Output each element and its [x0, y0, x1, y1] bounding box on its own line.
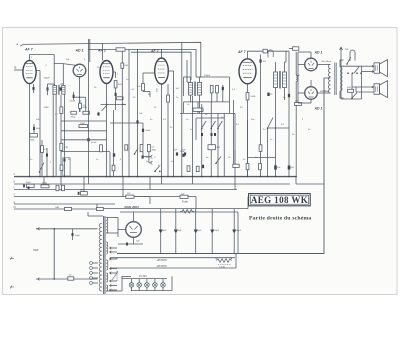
output transformer core: [334, 63, 336, 96]
wire IFB top leads: [275, 62, 277, 72]
resistor 240 x100: [97, 207, 104, 210]
wire IF0 tops: [48, 83, 55, 85]
wire x224.25 vertical: [223, 113, 225, 176]
wire drop x81 to 4uF: [83, 177, 85, 192]
bottom bus y253.5: [117, 253, 324, 255]
potentiometer Fisk zigzag: [216, 259, 232, 263]
svg-text:Fusib: Fusib: [182, 201, 189, 204]
wire x137.5 long vertical: [137, 49, 139, 176]
wire h y130.8: [61, 130, 107, 132]
resistor box x260 y148: [259, 145, 262, 152]
wire V1 plate up: [29, 55, 31, 61]
IF transformer A core: [193, 82, 195, 97]
wire x229.5 down: [229, 102, 231, 114]
wire V3 top lead: [102, 43, 104, 60]
tube V5 AF7: [239, 59, 256, 84]
svg-text:4V 32V: 4V 32V: [139, 275, 147, 278]
capacitor blob x73.6: [73, 92, 75, 100]
wire drop x61 to rail: [60, 177, 62, 186]
svg-text:50nF: 50nF: [36, 128, 41, 130]
svg-text:50nF: 50nF: [180, 151, 185, 153]
svg-text:CAD: CAD: [55, 206, 60, 209]
capacitor blob x289 y95: [288, 94, 290, 97]
wire h y157.6: [248, 157, 276, 159]
wire x40 vertical from tube right: [36, 70, 40, 72]
IF transformer A left winding: [188, 83, 192, 96]
capacitor C1 4μF: [160, 209, 162, 254]
page border: [3, 28, 398, 295]
wire IFA top leads: [190, 77, 192, 83]
power transformer secondary w2: [106, 242, 108, 254]
switch K4 diagonal: [216, 157, 221, 164]
bus rail g y204: [14, 203, 115, 205]
resistor box x113.5 y168: [112, 165, 115, 171]
svg-text:7kΩ: 7kΩ: [345, 49, 349, 51]
shield rectangle x62-70: [63, 158, 70, 176]
switch contact x156 y168: [155, 166, 160, 171]
output transformer left winding: [328, 65, 330, 93]
capacitor 50nF on V1 line: [33, 127, 35, 130]
wire h y66.2: [341, 65, 362, 67]
svg-text:10kΩ: 10kΩ: [80, 123, 85, 125]
switch contact lower-left: [40, 163, 45, 172]
capacitor blob x260 y61: [259, 59, 261, 62]
wire x201.75 lower vertical: [201, 104, 203, 177]
wire V4 top: [161, 49, 163, 58]
capacitor C3 8μF: [195, 209, 197, 254]
switch S2 diagonal: [354, 67, 359, 73]
wire drop x235: [234, 177, 236, 190]
lamp bottom bus y290.6: [131, 290, 172, 292]
svg-text:100pF: 100pF: [44, 78, 51, 80]
resistor box cluster: [208, 145, 215, 150]
tube V4 AF7: [155, 58, 169, 84]
svg-text:50μF: 50μF: [26, 182, 31, 184]
resistor box x188.5 y167: [187, 166, 190, 172]
resistor h box y112 left: [71, 111, 77, 114]
wire x88 vertical: [88, 50, 90, 177]
resistor 10k horizontal: [79, 125, 88, 128]
IF transformer 0 right winding: [62, 86, 65, 95]
svg-text:AF 7: AF 7: [237, 50, 247, 54]
resistor vert x217: [216, 85, 218, 102]
wire to speaker2 upper: [352, 86, 374, 88]
svg-text:AF 7: AF 7: [150, 49, 160, 53]
hook element: [350, 50, 355, 61]
wire RGN left: [118, 229, 126, 231]
wire x192.5 vertical: [192, 96, 194, 177]
wire IFA bottoms: [190, 95, 192, 102]
capacitor blob x183.5 y155: [182, 154, 184, 157]
resistor top box x122 y49: [116, 48, 125, 51]
rectifier tube RGN2004: [126, 222, 142, 238]
power transformer secondary HT winding: [106, 218, 108, 234]
wire h y128 to x289: [268, 127, 290, 129]
resistor box x199 y168: [196, 166, 199, 171]
svg-text:2MΩ: 2MΩ: [152, 150, 157, 152]
choke x296: [295, 52, 297, 75]
capacitor blob x143 y130: [142, 123, 144, 145]
svg-text:AF 7: AF 7: [24, 48, 34, 52]
capacitor blob x47 low: [46, 148, 48, 177]
main ground bus c y176.6: [14, 176, 296, 178]
resistor box x61.5 y167: [60, 165, 63, 171]
svg-text:100pF: 100pF: [70, 101, 76, 103]
wire top bus P3: [131, 52, 191, 80]
wire x187 vertical: [186, 60, 188, 82]
svg-text:3kΩ: 3kΩ: [118, 84, 122, 86]
IF transformer B left winding: [274, 72, 278, 88]
resistor box x184 y196: [160, 196, 180, 198]
wire 200pF to x229: [205, 76, 230, 78]
stage divider x88.5: [88, 39, 90, 50]
resistor box x115.6 y81: [114, 81, 117, 88]
HT bus y212: [160, 211, 238, 213]
svg-text:1MΩ: 1MΩ: [30, 140, 35, 142]
wire top bus P2: [89, 48, 117, 50]
wire V4 plate right: [168, 70, 173, 72]
svg-text:HFW: HFW: [33, 249, 39, 252]
resistor box V5 cathode: [246, 93, 249, 101]
loop antenna top wire: [36, 228, 98, 230]
wire x129 vertical: [128, 49, 130, 176]
wire x54 drop: [53, 55, 55, 86]
resistor vert x148.9 y148: [148, 145, 151, 152]
IF transformer 0 core: [57, 85, 59, 95]
IF transformer B right winding: [283, 72, 287, 88]
power transformer secondary w3: [106, 260, 108, 270]
wire h y104.4: [101, 103, 127, 105]
svg-text:2MΩ: 2MΩ: [44, 107, 49, 109]
wire x64.5 vertical: [64, 94, 66, 176]
jack symbol top: [340, 47, 343, 50]
resistor vert box x260b: [259, 164, 262, 170]
capacitor blob x289: [288, 166, 291, 170]
resistor box x61 y146: [60, 143, 63, 150]
capacitor blob x222.8: [222, 85, 224, 102]
speaker LS2: [374, 84, 380, 95]
capacitor blob k3: [214, 133, 216, 136]
resistor box x295 y49: [293, 47, 299, 51]
wire x235 vertical: [234, 113, 236, 176]
wire OPT right top: [339, 60, 341, 67]
svg-text:AD 1: AD 1: [314, 51, 323, 55]
wire x218 vertical: [217, 113, 219, 176]
svg-text:2MΩ: 2MΩ: [83, 107, 88, 109]
capacitor blob IF0 right: [60, 87, 62, 90]
wire h y97.2 under AD1: [74, 96, 86, 98]
svg-text:5kΩ: 5kΩ: [217, 147, 221, 149]
capacitor blob x137 y122: [136, 120, 138, 123]
primary tap switch dashed: [116, 271, 118, 281]
wire x61 vertical: [60, 95, 62, 177]
wire V7 left lead: [298, 92, 305, 94]
power transformer secondary w5: [106, 285, 108, 291]
resistor 1k horizontal: [193, 108, 203, 111]
heater wires from transformer: [116, 258, 118, 259]
wire transformer top left: [88, 215, 103, 217]
dial lamp LP2: [137, 283, 142, 288]
capacitor blob x115.6 y94: [115, 93, 117, 96]
lamp bus y278.6: [122, 278, 167, 280]
wire V6 left lead: [298, 64, 305, 66]
power transformer core: [103, 216, 105, 294]
wire V3 right to x115.6: [113, 71, 116, 73]
wire V5 top: [248, 51, 264, 59]
IF transformer 0 left winding: [53, 86, 57, 95]
wire x56 vertical: [55, 94, 57, 176]
wire x356 segment: [355, 87, 357, 92]
resistor top box x260: [263, 49, 267, 53]
wire to speaker1 lower: [362, 71, 375, 73]
wire h y156 link: [142, 152, 144, 157]
wire lamp feed from transformer: [106, 290, 122, 292]
wire h y101.9: [184, 101, 230, 103]
dial lamp LP5: [161, 283, 166, 288]
wire drop x44 to rail: [43, 177, 45, 184]
loop antenna bottom wire: [36, 278, 98, 280]
contact dots row: [347, 72, 349, 74]
fuse coil: [180, 210, 194, 214]
wire OPT right bottom: [339, 91, 341, 98]
svg-text:+65 50Hz: +65 50Hz: [157, 259, 168, 262]
primary terminals: [90, 262, 93, 265]
resistor 50 on loop bottom: [68, 277, 74, 280]
wire top bus P1: [23, 42, 201, 77]
svg-text:8μF: 8μF: [178, 230, 182, 232]
wire OPT centre tap: [324, 77, 331, 79]
tube V1 AF7: [23, 60, 36, 83]
svg-text:AEG 108 WK: AEG 108 WK: [251, 195, 308, 205]
svg-text:50pF: 50pF: [75, 235, 81, 237]
wire h y184 to box: [296, 183, 324, 185]
junction dots: [29, 176, 30, 177]
resistor box x61 y110: [60, 107, 63, 114]
wire V7 right lead to OPT: [317, 92, 330, 94]
resistor vert x247.5: [247, 120, 249, 177]
capacitor C4 16μF: [211, 209, 213, 254]
wire RGN top: [133, 212, 135, 222]
wire x115.6 down: [115, 88, 117, 110]
capacitor blob x64: [64, 159, 66, 162]
switch K2 diagonal: [211, 121, 215, 128]
resistor small box y90: [348, 89, 354, 92]
svg-text:AD 1: AD 1: [314, 107, 323, 111]
wire x113.5 vertical: [113, 110, 115, 165]
capacitor blob x28 y187.5: [28, 186, 30, 189]
wire drop x192.5: [192, 177, 194, 184]
wire drop x161.5: [161, 177, 163, 184]
capacitor C2 8μF: [175, 209, 177, 254]
dial lamp LP4: [153, 283, 158, 288]
svg-text:20kΩ: 20kΩ: [71, 117, 76, 119]
bus rail b y184: [14, 183, 290, 185]
svg-text:AD 1: AD 1: [75, 49, 84, 53]
dial lamp LP3: [145, 283, 150, 288]
capacitor 50uF on rails: [27, 184, 35, 187]
switch S1 diagonal: [347, 57, 351, 64]
resistor 500 box x143: [142, 73, 144, 84]
svg-text:2000: 2000: [323, 91, 329, 93]
svg-text:445 50Hz: 445 50Hz: [157, 265, 168, 268]
resistor h box y166 x236: [233, 164, 239, 167]
terminal C lower: [151, 161, 153, 164]
wire V6 top lead: [310, 52, 312, 58]
tube V3 AH1: [100, 61, 113, 84]
wire V3 bottom: [106, 84, 108, 105]
capacitor blob x109.5 y157: [113, 153, 115, 156]
resistor boxes x57-65: [56, 185, 59, 190]
wire drop x88.5: [88, 177, 90, 184]
capacitor blob k2: [211, 133, 213, 136]
capacitor blob x275: [274, 165, 277, 169]
capacitor blob RGN bottom: [126, 243, 128, 246]
wire V7 bottom to x298: [310, 99, 312, 103]
capacitor blob x268.5 y94: [267, 93, 269, 96]
svg-text:50Ω: 50Ω: [347, 87, 351, 89]
svg-text:8μF: 8μF: [296, 75, 300, 77]
tube V6 AD1 round: [305, 58, 318, 71]
wire to speaker1 upper: [362, 65, 375, 67]
wire V7 top: [310, 80, 312, 87]
transformer tap arrows: [110, 247, 112, 250]
svg-text:N: N: [14, 205, 16, 209]
heater line y257.7: [110, 257, 235, 259]
wire h y118 cluster: [196, 117, 224, 119]
wire drop x150: [149, 177, 151, 190]
capacitor 4uF x84: [81, 192, 88, 195]
power transformer secondary w4: [106, 273, 108, 282]
switch diagonal y107: [102, 105, 108, 112]
svg-text:50 nF: 50 nF: [91, 142, 97, 144]
capacitor C5 16μF: [233, 209, 235, 254]
terminal tick left y258: [10, 257, 14, 260]
bus rail f1 y189.5: [14, 189, 237, 191]
power transformer primary winding: [99, 224, 102, 291]
wire transformer to heater line: [116, 267, 118, 269]
wire x211.25 lower vertical: [210, 102, 212, 177]
wire x85.7 down: [85, 97, 87, 111]
transformer taps to rectifier: [106, 217, 118, 219]
capacitor blob x33.5 y88: [33, 84, 35, 93]
wire RGN bottom: [133, 237, 135, 244]
capacitor blob 100pF left: [47, 87, 49, 90]
wire V6 right lead to OPT: [317, 64, 330, 66]
lamp feed line y276.4: [122, 275, 131, 277]
svg-text:16μF: 16μF: [214, 230, 220, 232]
wire jack down: [340, 50, 342, 76]
wire x181.8 vertical: [181, 43, 183, 177]
wire x289 vertical: [288, 51, 290, 176]
wire h y123 to grid chain: [110, 122, 143, 124]
resistor box V1 bias: [30, 134, 38, 137]
svg-text:7÷15Ω: 7÷15Ω: [219, 266, 225, 269]
resistor h box y112 right: [83, 111, 90, 114]
capacitor blob 50nF y139.8: [87, 138, 89, 141]
resistor h box y98: [117, 97, 124, 100]
resistor R vert x42: [41, 140, 43, 177]
wire x196 stub: [195, 118, 197, 140]
dial lamp LP1: [129, 283, 134, 288]
wavetrap hook x268: [268, 50, 273, 58]
wire x236 vertical: [235, 254, 237, 269]
terminal C upper: [151, 155, 153, 158]
wire h y113.4: [180, 112, 235, 114]
wire h y121: [61, 120, 107, 122]
svg-text:60x 50ma: 60x 50ma: [322, 61, 332, 63]
svg-text:50nF: 50nF: [146, 130, 152, 132]
wire x233.5 vertical: [233, 100, 235, 164]
wire x275 vertical IFB left down: [275, 88, 277, 177]
wire to speaker2 lower: [356, 91, 374, 93]
capacitor blob x177 y154: [176, 152, 178, 155]
loop antenna vertical: [53, 229, 55, 279]
IF transformer A right winding: [197, 83, 201, 96]
heater line y268: [110, 267, 236, 269]
resistor 200 box x168: [167, 95, 170, 102]
wire bottom h y99: [341, 98, 362, 100]
wire x110 vertical: [109, 152, 111, 177]
wire x53 vertical: [52, 94, 54, 176]
svg-text:2kΩ: 2kΩ: [295, 101, 299, 103]
switch x267 diagonal: [268, 118, 274, 129]
wire V1 cathode down: [29, 84, 31, 177]
switch K3 diagonal: [218, 121, 222, 128]
svg-text:50nF: 50nF: [146, 157, 151, 159]
wire V4 bottom: [161, 84, 163, 177]
resistor vert x141.5 y148: [140, 145, 143, 152]
title box AEG 108 WK: [249, 194, 311, 206]
resistor box x126 y147: [125, 145, 128, 150]
wire IFB bottom right: [284, 88, 286, 101]
switch diagonal mid: [135, 149, 139, 154]
resistor 500 on rails: [41, 185, 49, 188]
terminal tick left y287: [10, 286, 14, 289]
wire V1 grid input B: [14, 69, 23, 71]
bus rail N y209: [14, 208, 97, 210]
bus rail f2 y196.6: [14, 196, 160, 198]
switch S3 diagonal: [352, 93, 357, 99]
capacitor blob k1: [201, 133, 203, 136]
tube V7 AD1 round: [305, 87, 318, 100]
wire h y162 link: [148, 152, 150, 163]
wire x352 lower: [351, 73, 353, 99]
wire x122 down: [121, 68, 123, 176]
wire V4 grid left: [143, 72, 155, 74]
tube V2 round: [73, 64, 86, 77]
wire x361.5 vertical: [361, 66, 363, 99]
wire 200pF h y77: [196, 76, 201, 78]
wire V2 top diagonal to IF0: [54, 64, 78, 66]
svg-text:16μF: 16μF: [236, 230, 242, 232]
wire V2 down: [79, 77, 81, 97]
capacitor blob x98.5 y114: [97, 112, 99, 115]
wire top right line: [267, 50, 289, 52]
wire x260 vertical: [260, 55, 262, 177]
svg-text:200Ω: 200Ω: [251, 96, 256, 98]
output transformer right winding: [340, 67, 342, 91]
resistor vert x80 y105: [79, 100, 81, 112]
node a terminal: [20, 45, 23, 47]
svg-text:8μF: 8μF: [198, 230, 202, 232]
speaker LS1: [374, 63, 380, 74]
svg-text:Partie droite du schéma: Partie droite du schéma: [249, 215, 311, 221]
capacitor blob x142.6 y157: [142, 155, 144, 158]
resistor small x68 y209: [65, 207, 72, 210]
capacitor blob x185 y154: [184, 152, 186, 155]
HT right end: [247, 197, 249, 209]
switch K1 diagonal: [202, 121, 206, 128]
